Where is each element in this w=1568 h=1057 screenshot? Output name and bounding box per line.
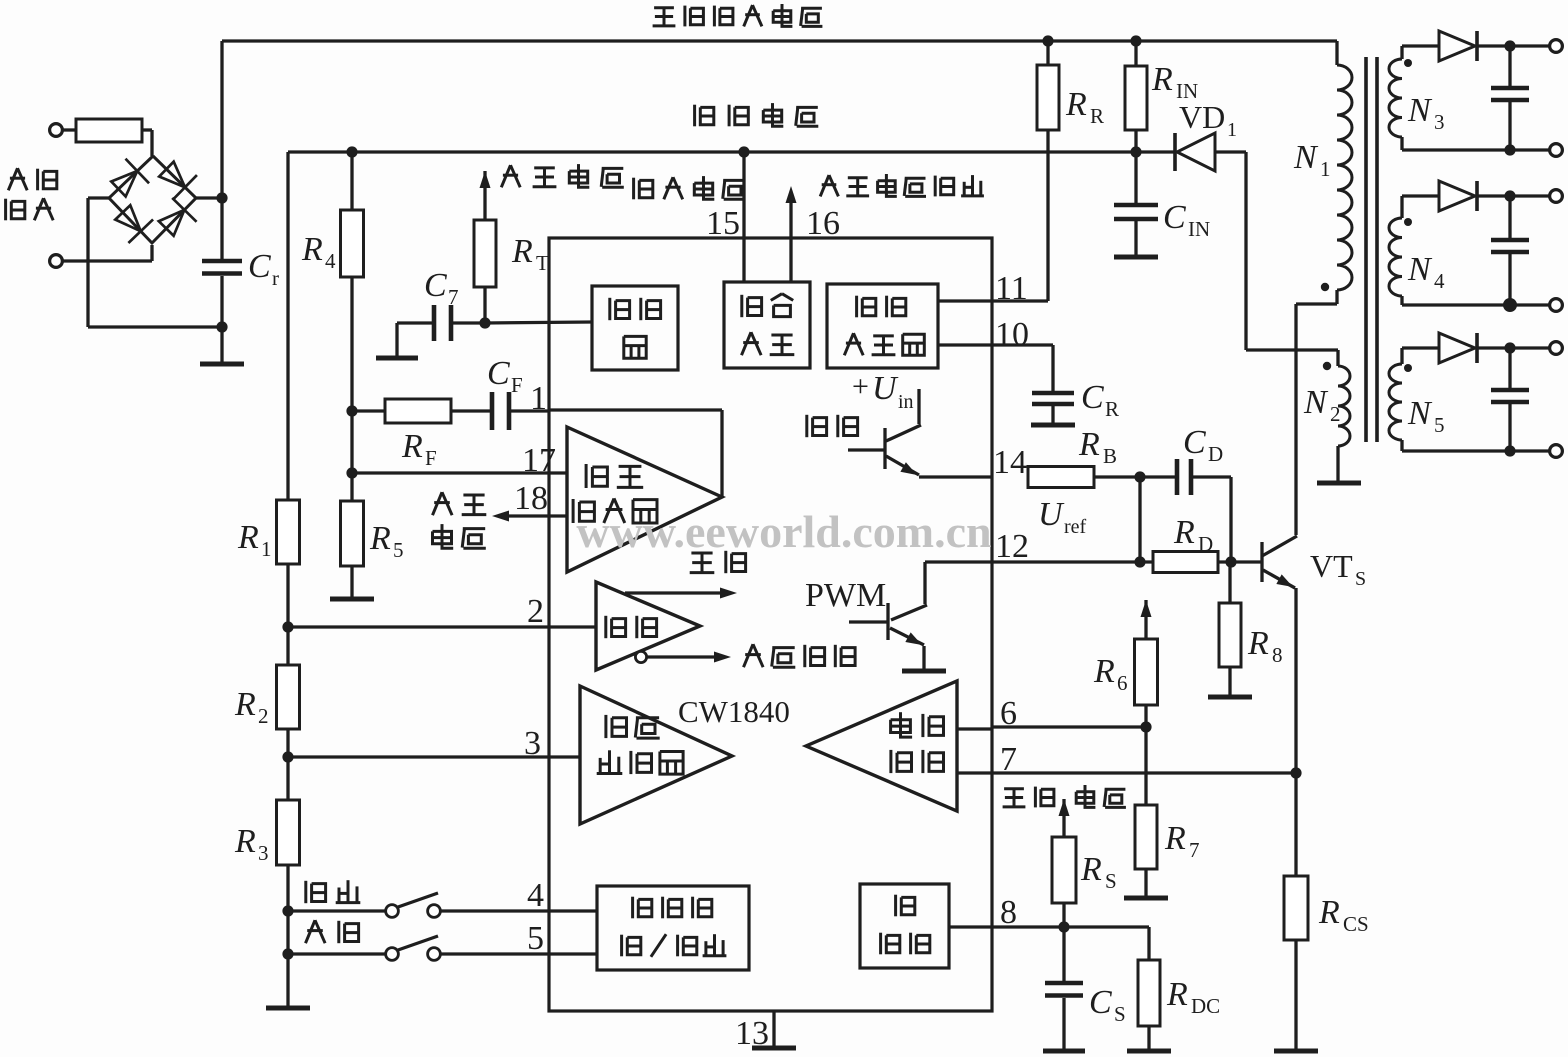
- op-amp 电流限制 (current limit): [806, 681, 957, 811]
- svg-text:8: 8: [1272, 643, 1283, 667]
- svg-text:8: 8: [1000, 894, 1017, 931]
- label pin 16: [806, 205, 840, 242]
- wire: terminal2 to bridge bottom: [62, 245, 152, 261]
- wire: 导通 output arrow: [625, 588, 737, 599]
- output terminal N5+: [1550, 342, 1563, 355]
- transformer core: [1366, 57, 1377, 442]
- block 斜坡发生器 (ramp generator): [827, 284, 938, 368]
- wire: pin2: [288, 625, 596, 628]
- junction bridge+ node: [216, 192, 227, 203]
- label 参考电压 (pin18): [433, 492, 487, 548]
- svg-text:N: N: [1293, 139, 1319, 176]
- ground (CIN): [1114, 255, 1158, 260]
- ground (CR): [1031, 423, 1075, 428]
- output terminal N4-: [1550, 299, 1563, 312]
- svg-text:T: T: [536, 251, 549, 275]
- wire: pin6 stub: [957, 727, 992, 730]
- junction N5 top: [1504, 342, 1515, 353]
- wire: pin1 internal feedback: [549, 410, 722, 497]
- wire: R1-R2 segment: [286, 564, 289, 665]
- resistor RF: [385, 399, 451, 423]
- wire: pin1 lead: [509, 409, 549, 412]
- svg-text:DC: DC: [1191, 994, 1220, 1018]
- svg-text:F: F: [511, 373, 523, 397]
- svg-text:C: C: [1163, 199, 1186, 236]
- watermark www.eeworld.com.cn: [576, 506, 991, 557]
- arrow up (RT reference voltage): [480, 171, 491, 188]
- label pin 13: [735, 1015, 769, 1052]
- junction N5 bottom: [1504, 445, 1515, 456]
- svg-text:R: R: [369, 520, 391, 557]
- junction node pin4: [282, 905, 293, 916]
- label RS: [1080, 851, 1117, 893]
- diode VD1: [1136, 133, 1246, 171]
- ground (RDC): [1127, 1026, 1171, 1051]
- block 振荡器 (oscillator): [592, 286, 678, 370]
- svg-text:U: U: [1038, 496, 1065, 533]
- svg-text:R: R: [1151, 61, 1173, 98]
- svg-text:S: S: [1355, 568, 1366, 590]
- output terminal N3+: [1550, 40, 1563, 53]
- junction pin15 on control rail: [738, 146, 749, 157]
- junction R4 top: [346, 146, 357, 157]
- svg-text:R: R: [1090, 104, 1104, 128]
- svg-text:10: 10: [995, 316, 1029, 353]
- resistor R6 with arrow: [1135, 600, 1158, 705]
- output terminal N3-: [1550, 144, 1563, 157]
- svg-text:C: C: [1081, 379, 1104, 416]
- svg-text:U: U: [872, 370, 899, 407]
- wire: top rail left drop to bridge + node: [220, 41, 223, 198]
- wire: pin12 internal: [925, 560, 992, 563]
- label pin 12: [995, 528, 1029, 565]
- label pin 15: [706, 205, 740, 242]
- svg-text:S: S: [1105, 869, 1117, 893]
- block 慢启动 (slow start): [860, 884, 949, 968]
- label 驱动 (drive): [807, 415, 858, 437]
- label VD1: [1179, 99, 1237, 141]
- label 直流输入电压 (DC input voltage): [653, 4, 823, 26]
- phase dot N2: [1323, 362, 1331, 370]
- op-amp 误差放大器 (error amplifier): [567, 427, 722, 572]
- switch S2 (reset): [288, 936, 597, 960]
- svg-text:4: 4: [325, 249, 336, 273]
- label CIN: [1163, 199, 1210, 241]
- transistor PWM: [849, 562, 927, 669]
- wire: pin12 external: [992, 560, 1153, 563]
- svg-text:18: 18: [514, 480, 548, 517]
- svg-text:R: R: [1247, 625, 1269, 662]
- label pin 2: [527, 593, 544, 630]
- wire: pin15: [742, 152, 745, 282]
- svg-text:R: R: [1093, 653, 1115, 690]
- AC input terminal 1: [50, 124, 63, 137]
- svg-text:C: C: [424, 267, 447, 304]
- svg-text:16: 16: [806, 205, 840, 242]
- wire: pin7 external: [992, 771, 1296, 774]
- wire: RF to CF: [451, 409, 492, 412]
- junction RD left: [1134, 556, 1145, 567]
- wire: CD node drop: [1138, 477, 1141, 562]
- resistor RR: [1037, 41, 1059, 130]
- svg-text:3: 3: [524, 725, 541, 762]
- svg-text:2: 2: [258, 704, 269, 728]
- capacitor CD: [1177, 459, 1191, 495]
- resistor RD: [1153, 552, 1218, 573]
- label pin 17: [522, 442, 556, 479]
- svg-text:PWM: PWM: [805, 577, 886, 614]
- label C7: [424, 267, 459, 309]
- label N1: [1293, 139, 1331, 181]
- svg-text:4: 4: [1434, 269, 1445, 293]
- bridge rectifier VC (4 diodes): [109, 156, 197, 243]
- svg-text:D: D: [1198, 532, 1213, 556]
- label RF: [401, 428, 437, 470]
- capacitor C7: [434, 305, 451, 341]
- label pin 18: [514, 480, 548, 517]
- label pin 7: [1000, 741, 1017, 778]
- svg-text:R: R: [1105, 397, 1119, 421]
- secondary N4 + diode + capacitor: [1389, 181, 1550, 305]
- svg-text:14: 14: [993, 444, 1027, 481]
- label pin 10: [995, 316, 1029, 353]
- svg-text:17: 17: [522, 442, 556, 479]
- svg-text:R: R: [1166, 976, 1188, 1013]
- label 控制电压 (control voltage): [695, 103, 819, 126]
- label R3: [234, 823, 269, 865]
- resistor RIN: [1125, 41, 1147, 130]
- wire: VTs collector to N1 bottom: [1296, 304, 1337, 535]
- phase dot N4: [1404, 218, 1412, 226]
- svg-text:www.eeworld.com.cn: www.eeworld.com.cn: [576, 506, 991, 557]
- wire: pin10: [938, 345, 1053, 391]
- label pin 8: [1000, 894, 1017, 931]
- phase dot N5: [1404, 364, 1412, 372]
- label R1: [237, 519, 272, 561]
- ground (left rail): [266, 1006, 310, 1011]
- svg-text:S: S: [1114, 1002, 1126, 1026]
- wire: R2-R3 segment: [286, 729, 289, 800]
- wire: RR bottom to pin11: [938, 130, 1048, 301]
- label RCS: [1318, 894, 1369, 936]
- svg-text:F: F: [425, 446, 437, 470]
- label pin 11: [995, 270, 1028, 307]
- svg-text:12: 12: [995, 528, 1029, 565]
- output terminal N4+: [1550, 190, 1563, 203]
- block 精密参考 (precision reference): [724, 282, 810, 368]
- wire: R3 to ground segment: [286, 865, 289, 1006]
- ground (Cr node): [200, 327, 244, 364]
- ground (N2): [1317, 481, 1361, 486]
- svg-text:R: R: [301, 231, 323, 268]
- wire: bridge left vertex to DC- rail: [88, 198, 222, 327]
- transistor VTs: [1262, 536, 1297, 588]
- svg-text:D: D: [1208, 442, 1223, 466]
- svg-text:R: R: [401, 428, 423, 465]
- label 交流输入 (AC input): [6, 168, 57, 220]
- fuse FU: [62, 119, 152, 156]
- svg-text:7: 7: [448, 285, 459, 309]
- junction CD/pin14 node: [1134, 471, 1145, 482]
- resistor RDC: [1138, 960, 1160, 1026]
- capacitor CS: [1045, 927, 1083, 1049]
- wire: pin8 to RDC: [1147, 927, 1150, 960]
- op-amp 补偿 (compensation): [596, 582, 700, 670]
- label RIN: [1151, 61, 1198, 103]
- label PWM: [805, 577, 886, 614]
- junction VD1/CIN node: [1130, 146, 1141, 157]
- ground (pin13): [752, 1046, 796, 1051]
- wire: pin16 with arrow: [786, 186, 797, 282]
- svg-text:5: 5: [1434, 413, 1445, 437]
- wire: R4 top lead: [350, 152, 353, 210]
- resistor RT with arrow: [474, 171, 496, 287]
- ground (R7): [1124, 869, 1168, 898]
- label Cr: [248, 248, 279, 290]
- wire: R4 to RF/R5 node: [350, 277, 353, 501]
- svg-text:1: 1: [1227, 119, 1237, 141]
- wire: RF left lead: [352, 409, 385, 412]
- label R7: [1164, 820, 1200, 862]
- wire: VD1 to N2 top: [1246, 152, 1338, 350]
- wire: R6 to R7: [1144, 705, 1147, 805]
- junction Cr bottom node: [216, 321, 227, 332]
- label pin 5: [527, 920, 544, 957]
- label N4: [1407, 251, 1445, 293]
- svg-text:R: R: [1065, 86, 1087, 123]
- junction N4 top: [1504, 190, 1515, 201]
- label pin 4: [527, 877, 544, 914]
- label pin 6: [1000, 695, 1017, 732]
- junction node pin5: [282, 948, 293, 959]
- svg-text:r: r: [272, 266, 279, 290]
- resistor RB: [1028, 467, 1094, 488]
- resistor R2: [277, 665, 300, 729]
- label 参考电压输出: [820, 174, 984, 196]
- label pin 3: [524, 725, 541, 762]
- svg-text:VT: VT: [1310, 548, 1353, 584]
- junction VTs base node: [1225, 556, 1236, 567]
- resistor R8: [1219, 562, 1241, 667]
- junction R6/R7 node: [1140, 721, 1151, 732]
- svg-text:15: 15: [706, 205, 740, 242]
- resistor RS with arrow: [1052, 799, 1076, 903]
- svg-text:N: N: [1407, 251, 1433, 288]
- svg-text:R: R: [1080, 851, 1102, 888]
- label RT: [511, 233, 549, 275]
- svg-text:R: R: [234, 686, 256, 723]
- block 遥控启动/停止 (remote start/stop): [597, 886, 749, 970]
- resistor R4: [341, 210, 364, 277]
- svg-text:3: 3: [258, 841, 269, 865]
- label RB: [1078, 426, 1117, 468]
- svg-text:1: 1: [261, 537, 272, 561]
- capacitor Cr: [202, 198, 242, 327]
- secondary N3 + diode + capacitor: [1389, 31, 1550, 150]
- wire: VTs emitter down: [1294, 588, 1297, 876]
- svg-text:6: 6: [1117, 671, 1128, 695]
- wire: RS bottom: [1062, 903, 1065, 927]
- label CD: [1183, 424, 1223, 466]
- junction pin9 node: [479, 317, 490, 328]
- label CS: [1089, 984, 1126, 1026]
- junction RR top: [1042, 35, 1053, 46]
- svg-text:R: R: [1318, 894, 1340, 931]
- wire: pin17: [352, 471, 567, 474]
- label 参考电压 (reference voltage): [501, 164, 624, 187]
- label RR: [1065, 86, 1104, 128]
- wire: C7 left to ground: [397, 323, 434, 356]
- label RD: [1173, 514, 1213, 556]
- transistor drive (内部驱动): [848, 389, 992, 477]
- label VTs: [1310, 548, 1366, 590]
- label pin 1: [530, 380, 547, 417]
- svg-text:CW1840: CW1840: [678, 694, 790, 729]
- transformer winding N2: [1338, 350, 1350, 481]
- svg-text:2: 2: [527, 593, 544, 630]
- ground (R8): [1208, 667, 1252, 697]
- junction node pin2: [282, 621, 293, 632]
- svg-text:R: R: [1078, 426, 1100, 463]
- wire: RD right to base: [1218, 560, 1262, 563]
- ground (C7): [376, 356, 418, 361]
- svg-text:+: +: [852, 370, 869, 403]
- svg-text:C: C: [248, 248, 271, 285]
- ground (RCS): [1274, 940, 1318, 1051]
- wire: DC input top rail: [222, 39, 1337, 42]
- label CR: [1081, 379, 1119, 421]
- svg-text:CS: CS: [1343, 912, 1369, 936]
- resistor R3: [277, 800, 300, 865]
- svg-text:7: 7: [1189, 838, 1200, 862]
- capacitor CF: [492, 392, 509, 430]
- wire: pin6 external: [992, 725, 1146, 728]
- switch S1 (stop): [288, 893, 597, 917]
- svg-text:5: 5: [527, 920, 544, 957]
- svg-text:N: N: [1303, 384, 1329, 421]
- svg-text:6: 6: [1000, 695, 1017, 732]
- resistor R5: [341, 501, 364, 566]
- svg-text:C: C: [1183, 424, 1206, 461]
- svg-text:in: in: [898, 391, 914, 413]
- svg-text:R: R: [237, 519, 259, 556]
- junction N3 top: [1504, 40, 1515, 51]
- svg-text:IN: IN: [1188, 217, 1210, 241]
- resistor RCS: [1284, 876, 1308, 940]
- label R2: [234, 686, 269, 728]
- junction pin17/R5 node: [346, 467, 357, 478]
- ground (CS): [1043, 1049, 1085, 1054]
- label CW1840: [678, 694, 790, 729]
- label N2: [1303, 384, 1341, 426]
- wire: CD right to base node: [1191, 477, 1231, 562]
- label Uref: [1038, 496, 1087, 538]
- svg-text:7: 7: [1000, 741, 1017, 778]
- capacitor CR: [1032, 393, 1074, 423]
- svg-text:R: R: [1164, 820, 1186, 857]
- phase dot N3: [1404, 59, 1412, 67]
- wire: control voltage rail: [288, 150, 1136, 153]
- label 输入电压: [634, 176, 746, 199]
- junction N3 bottom: [1504, 144, 1515, 155]
- svg-text:N: N: [1407, 395, 1433, 432]
- ground (PWM emitter): [902, 669, 946, 674]
- svg-text:2: 2: [1330, 402, 1341, 426]
- wire: pin18 with left arrow: [492, 511, 567, 522]
- wire: pin9: [451, 322, 592, 323]
- junction N4 bottom: [1503, 298, 1517, 312]
- phase dot N1: [1321, 283, 1329, 291]
- wire: pin8 external: [949, 925, 1149, 928]
- capacitor CIN: [1114, 152, 1158, 255]
- label R4: [301, 231, 336, 273]
- label R8: [1247, 625, 1283, 667]
- label pin 14: [993, 444, 1027, 481]
- svg-text:R: R: [1173, 514, 1195, 551]
- label 复位 (reset): [306, 920, 359, 943]
- wire: RIN bottom: [1134, 130, 1137, 152]
- label CF: [487, 355, 523, 397]
- svg-text:1: 1: [530, 380, 547, 417]
- label R5: [369, 520, 404, 562]
- secondary N5 + diode + capacitor: [1389, 333, 1550, 451]
- output terminal N5-: [1550, 445, 1563, 458]
- junction pin8 node: [1058, 921, 1069, 932]
- label 直流 电压 (DC voltage): [1003, 785, 1126, 807]
- junction pin7/VTs emitter: [1290, 767, 1301, 778]
- label N3: [1407, 92, 1445, 134]
- transformer primary N1: [1337, 41, 1352, 304]
- svg-text:4: 4: [527, 877, 544, 914]
- svg-text:N: N: [1407, 92, 1433, 129]
- label 停止 (stop): [306, 880, 361, 903]
- svg-text:ref: ref: [1064, 516, 1087, 538]
- svg-text:C: C: [487, 355, 510, 392]
- wire: pin7 stub: [957, 771, 992, 774]
- label R6: [1093, 653, 1128, 695]
- svg-text:B: B: [1103, 444, 1117, 468]
- inverted output circle: [635, 651, 646, 662]
- svg-text:1: 1: [1320, 157, 1331, 181]
- label 欠压保护 (undervoltage protection): [744, 644, 856, 667]
- resistor R1: [277, 500, 300, 564]
- junction RF node: [346, 405, 357, 416]
- svg-text:3: 3: [1434, 110, 1445, 134]
- label 导通 (conduction): [690, 551, 746, 573]
- AC input terminal 2: [50, 255, 63, 268]
- junction node pin3: [282, 751, 293, 762]
- IC CW1840 outline: [549, 238, 992, 1011]
- svg-text:VD: VD: [1179, 99, 1225, 135]
- wire: left rail from control line: [286, 152, 289, 500]
- wire: pin3: [288, 755, 580, 758]
- op-amp 过压比较器 (overvoltage comparator): [580, 686, 732, 824]
- wire: 欠压保护 output arrow: [647, 652, 731, 663]
- resistor R7: [1135, 805, 1157, 869]
- label +Uin: [852, 370, 914, 413]
- svg-text:R: R: [234, 823, 256, 860]
- label N5: [1407, 395, 1445, 437]
- wire: pin13: [772, 1011, 775, 1046]
- svg-text:C: C: [1089, 984, 1112, 1021]
- wire: RT bottom to pin9 node: [483, 287, 486, 323]
- svg-text:11: 11: [995, 270, 1028, 307]
- junction RIN top: [1130, 35, 1141, 46]
- svg-text:5: 5: [393, 538, 404, 562]
- label RDC: [1166, 976, 1220, 1018]
- ground (R5): [330, 566, 374, 599]
- wire: bridge right vertex to + node: [196, 196, 222, 199]
